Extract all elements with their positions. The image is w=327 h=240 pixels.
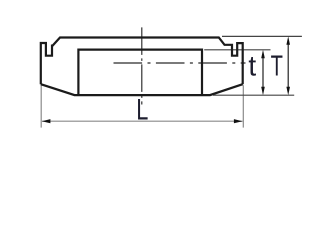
svg-text:T: T <box>271 51 283 83</box>
svg-text:L: L <box>136 94 148 127</box>
svg-text:t: t <box>248 51 256 83</box>
